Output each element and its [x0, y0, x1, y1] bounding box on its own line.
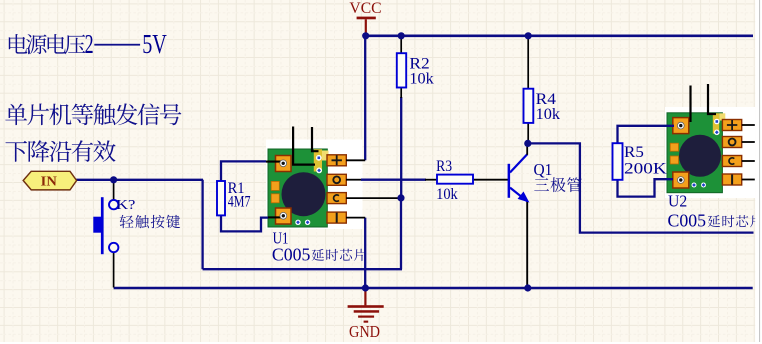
U1 top-left pad [276, 156, 292, 172]
wire trigger node vertical [201, 180, 203, 269]
U2 bottom hole 1 [692, 183, 697, 188]
U1 bottom-left pad [276, 208, 292, 224]
label R4 [536, 91, 556, 108]
wire U1 - pad to ground rail [364, 218, 366, 288]
wire C-node down [400, 198, 402, 269]
pin R2 bottom [400, 88, 402, 99]
U2 pad minus [722, 174, 741, 185]
pin R4 bottom [527, 123, 529, 143]
wire trigger node horizontal [203, 268, 402, 270]
U2 left small pads [670, 143, 678, 164]
switch K1 actuator [93, 197, 103, 254]
U2 bottom-left pad hole [677, 177, 684, 184]
ground GND [348, 289, 384, 341]
svg-text:10k: 10k [436, 186, 458, 203]
pin R3 right [473, 179, 509, 181]
U1 bottom hole 1 [295, 220, 300, 225]
resistor R5 [613, 143, 623, 180]
label R5 value [624, 161, 667, 178]
annotation line 3: falling edge text [5, 140, 115, 162]
U2 strip hole 2 [714, 130, 720, 136]
label R1 [228, 180, 245, 197]
U2 pad O [722, 137, 741, 148]
U2 bottom hole 2 [701, 183, 706, 188]
U1 pad + [327, 155, 346, 166]
pin U2 C pad [742, 160, 755, 162]
svg-text:2: 2 [85, 29, 94, 59]
wire R1 top to U1 pad [221, 161, 283, 182]
label U2 type [668, 211, 762, 231]
wire rail to U1 + pad [364, 36, 366, 161]
wire U2 top lead 1 [689, 86, 691, 123]
U2 strip hole 1 [714, 119, 720, 125]
U2 pad + [722, 120, 741, 131]
pin R4 top [527, 36, 529, 89]
wire IN to trigger node [76, 179, 203, 181]
wire U2 top lead 2 [708, 84, 716, 114]
U1 strip hole 1 [316, 155, 322, 161]
U1 strip hole 2 [316, 168, 322, 174]
wire U1 top lead 2 [312, 127, 319, 151]
pin switch bottom [113, 252, 115, 287]
label R3 [436, 158, 452, 175]
svg-text:GND: GND [349, 322, 380, 341]
svg-text:200K: 200K [624, 161, 667, 178]
U1 bottom-left pad hole [280, 212, 287, 219]
wire VCC rail [366, 34, 753, 37]
label R1 value [228, 194, 251, 211]
label R3 value [436, 186, 458, 203]
junction GND node [362, 284, 369, 291]
label R4 value [536, 106, 560, 123]
annotation line 2: trigger signal text [5, 103, 181, 125]
label R2 [409, 55, 429, 72]
wire R1 bottom to U1 pad [221, 215, 283, 232]
IC module U2 PCB [667, 113, 722, 193]
U2 top-left pad hole [677, 122, 684, 129]
switch K1 bottom contact [109, 243, 118, 252]
wire collector node right [528, 143, 754, 232]
U1 COB blob [282, 172, 326, 216]
U1 pad O [327, 174, 346, 185]
svg-text:VCC: VCC [349, 0, 381, 17]
label Q1 type [534, 177, 581, 192]
wire R2 bottom to C-node [400, 97, 402, 198]
U2 COB blob [679, 135, 721, 177]
switch K1 top contact [109, 200, 118, 209]
pin U2 O pad [742, 141, 755, 143]
pin R3 left [425, 179, 437, 181]
junction emitter node [524, 284, 531, 291]
svg-text:C005: C005 [668, 211, 707, 231]
annotation line 1: power voltage text [9, 29, 167, 59]
junction R2 top [398, 32, 405, 39]
U1 yellow strip [314, 149, 329, 171]
IC module U1 PCB [268, 149, 327, 227]
sheet right edge [755, 0, 762, 344]
wire emitter to ground rail [526, 201, 528, 288]
wire U1 O pad to R3 [361, 179, 426, 181]
label Q1 [534, 160, 553, 179]
junction C-pin node [397, 194, 404, 201]
wire ground rail [114, 287, 753, 290]
U1 left small pads [271, 181, 279, 202]
label U1 type [272, 244, 366, 264]
resistor R1 [217, 181, 225, 215]
wire U1 top lead 1 [293, 127, 315, 165]
pin U1 - pad [346, 217, 365, 219]
U2 pad C [722, 156, 741, 167]
IC module U1 white body [266, 140, 363, 230]
U1 pad C [327, 193, 346, 204]
svg-text:5V: 5V [142, 29, 167, 59]
svg-text:4M7: 4M7 [228, 194, 251, 211]
pin R2 top [400, 36, 402, 54]
pin U2 - pad [742, 179, 755, 181]
junction IN node [110, 176, 117, 183]
U1 top-left pad hole [280, 160, 287, 167]
pin U1 C pad [346, 197, 399, 199]
pin switch top [113, 181, 115, 200]
junction collector node [524, 140, 531, 147]
label U1 [273, 229, 289, 248]
U1 bottom hole 2 [305, 220, 310, 225]
label R5 [624, 144, 644, 161]
svg-text:C005: C005 [272, 244, 311, 264]
junction VCC node [362, 32, 369, 39]
pin U1 + pad [346, 159, 365, 161]
resistor R2 [397, 53, 406, 87]
svg-text:K?: K? [116, 197, 135, 212]
U2 top-left pad [673, 118, 689, 134]
label R2 value [409, 70, 433, 87]
wire R5 top to U2 pad [618, 126, 675, 144]
sheet bottom edge [0, 342, 762, 344]
svg-text:10k: 10k [536, 106, 560, 123]
IC module U2 white body [665, 107, 755, 198]
U1 pad minus [327, 212, 346, 223]
svg-text:IN: IN [41, 173, 57, 188]
svg-text:U2: U2 [668, 192, 687, 211]
U2 bottom-left pad [673, 172, 689, 188]
wire R5 bottom to U2 pad [618, 179, 674, 197]
pin U1 O pad [346, 179, 362, 181]
pin U2 + pad [742, 124, 755, 126]
resistor R3 [437, 175, 473, 184]
svg-text:Q1: Q1 [534, 160, 553, 179]
junction R4 top [525, 32, 532, 39]
U2 yellow strip [713, 113, 726, 133]
transistor Q1 [508, 143, 529, 201]
label U2 [668, 192, 687, 211]
svg-text:10k: 10k [409, 70, 433, 87]
label switch type [120, 215, 180, 229]
power VCC [349, 0, 381, 34]
label K? [116, 197, 135, 212]
svg-text:R5: R5 [624, 144, 644, 161]
svg-text:R3: R3 [436, 158, 452, 175]
resistor R4 [524, 89, 534, 123]
port IN [23, 171, 76, 190]
